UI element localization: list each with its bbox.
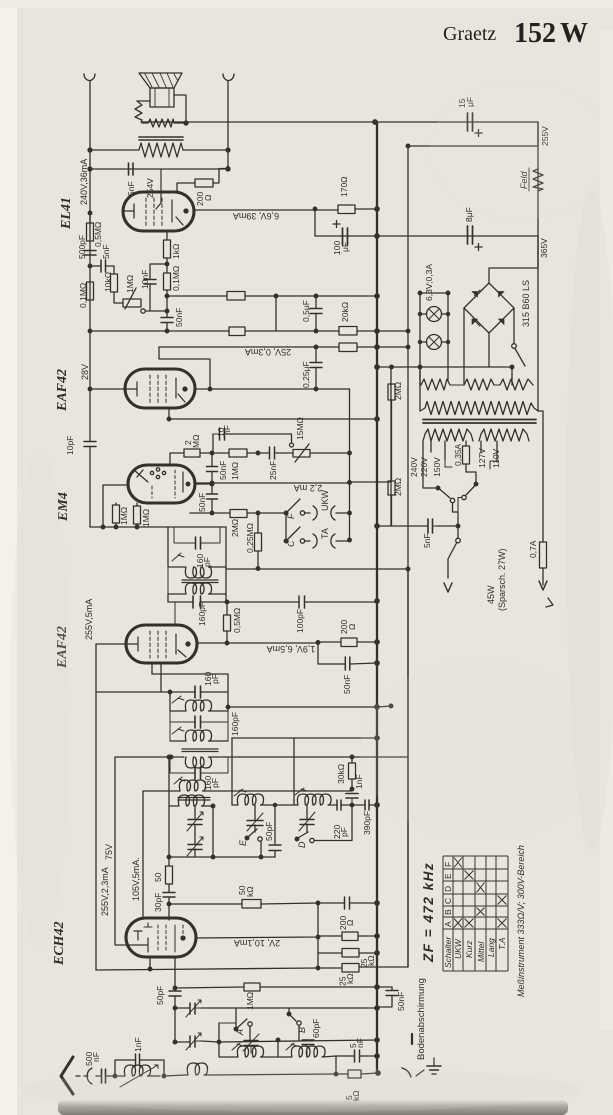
switch E	[245, 836, 249, 840]
capacitor 220pF	[337, 800, 341, 810]
pot 15M	[293, 450, 310, 458]
resistor 0,25M	[257, 513, 259, 568]
svg-text:1MΩ: 1MΩ	[125, 275, 135, 293]
rectifier feed corner 365V	[489, 236, 538, 283]
switch D	[295, 837, 299, 841]
svg-text:Schalter: Schalter	[443, 936, 453, 968]
ECH42 electrodes	[134, 931, 148, 952]
resistor 170 Ohm	[338, 205, 355, 214]
line y=757	[115, 756, 408, 758]
IFT2 bottom rail y=773	[170, 757, 228, 773]
svg-text:1,9V, 6,5mA: 1,9V, 6,5mA	[267, 644, 316, 654]
svg-text:MΩ: MΩ	[191, 435, 201, 448]
svg-text:5nF: 5nF	[422, 533, 432, 548]
switch table grid	[443, 856, 508, 971]
capacitor 8uF electrolytic	[468, 226, 473, 244]
svg-text:kΩ: kΩ	[245, 886, 255, 897]
svg-text:Ω: Ω	[345, 920, 355, 926]
bridge left corner down	[463, 308, 465, 384]
cathode rail x=115	[115, 757, 141, 945]
hum coil zigzag	[135, 101, 142, 122]
oscillator tank right rail x=213	[212, 806, 214, 857]
svg-text:D: D	[443, 886, 453, 892]
svg-text:B: B	[297, 1027, 307, 1033]
line y=419	[169, 418, 377, 420]
255V corner down	[537, 122, 539, 146]
capacitor 100uF electrolytic	[343, 228, 348, 245]
svg-text:2MΩ: 2MΩ	[393, 478, 403, 496]
svg-text:ZF = 472 kHz: ZF = 472 kHz	[421, 862, 436, 963]
shield mark	[411, 1034, 413, 1044]
antenna coil	[118, 1065, 160, 1076]
tube EAF42 (AF) envelope	[125, 369, 195, 408]
staircase to EAF42	[159, 347, 210, 389]
resistor 0,5M (left rail)	[87, 223, 94, 241]
resistor 200 Ohm (IF)	[341, 638, 357, 647]
capacitor 50nF (screen bypass)	[318, 642, 377, 664]
capacitor 15uF electrolytic	[468, 113, 473, 131]
svg-text:110V: 110V	[491, 448, 501, 468]
terminal arc left	[84, 74, 95, 81]
decoupling chain x=318	[317, 903, 319, 968]
resistor 30k	[351, 756, 353, 789]
resistor 1M (EM4 b)	[136, 503, 138, 527]
ECH42 bottom stubs	[149, 957, 151, 969]
resistor 200 Ohm (screen)	[195, 179, 213, 187]
svg-text:Bodenabschirmung: Bodenabschirmung	[416, 978, 427, 1060]
svg-text:(Sparsch. 27W): (Sparsch. 27W)	[497, 548, 507, 611]
svg-text:2,2 mA: 2,2 mA	[294, 483, 323, 493]
capacitor 5nF (mains)	[377, 525, 458, 527]
coupling node x=336	[335, 1056, 337, 1074]
grid-chain rail (vertical, x=391)	[390, 367, 392, 526]
anode stub to EL41	[156, 169, 161, 209]
svg-text:50: 50	[153, 872, 163, 882]
diode marks	[472, 292, 478, 298]
switch A stem	[235, 1008, 237, 1029]
svg-text:30kΩ: 30kΩ	[336, 764, 346, 784]
AF coupling vertical x=349.5	[349, 389, 351, 540]
mains plug arrow left	[444, 583, 452, 592]
bridge right corner to switch	[513, 308, 515, 343]
EM4 electrodes	[134, 470, 148, 482]
table X marks	[454, 858, 462, 868]
tube EM4 envelope	[128, 465, 195, 503]
detector line y=453	[170, 453, 350, 465]
D branch rail	[293, 738, 295, 800]
svg-text:105V,5mA.: 105V,5mA.	[131, 857, 141, 901]
terminal arc right	[223, 74, 234, 81]
mains plug arrow right	[539, 581, 547, 590]
svg-text:315 B60 LS: 315 B60 LS	[521, 280, 531, 327]
svg-text:50nF: 50nF	[174, 308, 184, 327]
IFT1 side rails	[168, 527, 226, 602]
resistor 5k	[348, 1070, 361, 1078]
svg-text:75V: 75V	[104, 844, 114, 860]
capacitor 10pF (left rail)	[84, 442, 96, 447]
IFT2 AVC line y=707	[228, 706, 391, 707]
line y=367	[377, 366, 512, 368]
svg-text:50nF: 50nF	[218, 461, 228, 480]
dial lamp rails	[420, 293, 448, 385]
svg-text:μF: μF	[340, 242, 350, 252]
IFT2 coil 3 on line y=757	[185, 757, 214, 768]
capacitor 50nF (x=392)	[378, 987, 392, 1007]
svg-text:0,5MΩ: 0,5MΩ	[93, 222, 103, 247]
coupling coil	[185, 1063, 211, 1075]
IF line y=602	[168, 594, 377, 602]
capacitor 5nF (left small)	[101, 260, 106, 272]
svg-text:2V, 10,1mA: 2V, 10,1mA	[234, 938, 280, 948]
rectifier bridge 315 B60 LS	[464, 283, 514, 333]
svg-text:E: E	[443, 873, 453, 879]
transformer core	[423, 420, 536, 424]
UKW jack	[313, 506, 335, 520]
resistor 2M (lower)	[388, 481, 395, 495]
tube EAF42 (IF) envelope	[126, 625, 197, 663]
svg-text:25V, 0,3mA: 25V, 0,3mA	[245, 347, 291, 357]
anode line y=389	[195, 388, 350, 390]
svg-text:kΩ: kΩ	[366, 955, 376, 966]
grid resistor 50	[166, 866, 173, 884]
svg-text:1MΩ: 1MΩ	[119, 507, 129, 525]
antenna chevron	[61, 1057, 73, 1094]
left supply rail (vertical, x=90)	[89, 81, 91, 527]
svg-text:F: F	[286, 513, 296, 519]
line y=169 (254V)	[90, 168, 228, 170]
svg-text:A: A	[443, 921, 453, 927]
capacitor 390pF	[365, 800, 369, 810]
trimmer cap A	[244, 1041, 258, 1046]
OT primary line y=150	[90, 149, 228, 151]
line y=569	[226, 568, 408, 570]
svg-text:30pF: 30pF	[153, 893, 163, 912]
line y=791	[143, 790, 352, 792]
dial lamp 1	[427, 307, 442, 322]
svg-text:255V,5mA: 255V,5mA	[84, 599, 94, 640]
capacitor 1nF (osc)	[346, 794, 358, 799]
speaker wire right	[174, 95, 186, 123]
capacitor 100pF	[299, 596, 305, 608]
trimmer cap D	[306, 805, 308, 832]
svg-text:pF: pF	[339, 827, 349, 837]
1nF loop	[115, 1060, 164, 1076]
IFT1 upper coil	[168, 567, 226, 578]
selector switch 1	[436, 486, 440, 490]
bandfilter top coil	[179, 780, 210, 791]
svg-text:500pF: 500pF	[77, 235, 87, 259]
resistor 0,8M (second)	[339, 343, 357, 352]
svg-text:6,6V, 39mA: 6,6V, 39mA	[233, 211, 279, 221]
resistor 20k	[339, 327, 357, 336]
svg-text:0,1MΩ: 0,1MΩ	[171, 266, 181, 291]
resistor 2M (EM4 grid)	[184, 449, 200, 457]
capacitor 160pF (IFT2 b)	[195, 716, 201, 728]
secondary winding right (127/110V)	[479, 429, 529, 441]
fuse 0,35A	[466, 441, 476, 484]
EL41 cathode resistor 1kOhm	[166, 231, 168, 273]
trimmer cap E	[254, 805, 256, 832]
svg-text:170Ω: 170Ω	[339, 176, 349, 197]
svg-text:1nF: 1nF	[133, 1037, 143, 1052]
switch B stem	[288, 1008, 290, 1014]
resistor 0,2M	[229, 327, 245, 336]
svg-text:pF: pF	[202, 557, 212, 567]
capacitor 50nF (second)	[211, 484, 213, 513]
capacitor 30pF	[163, 893, 175, 898]
capacitor 10nF	[144, 280, 156, 285]
top B+ line y=122	[142, 121, 538, 123]
svg-text:365V: 365V	[539, 238, 549, 258]
svg-text:1kΩ: 1kΩ	[171, 244, 181, 259]
capacitor 50nF (grid)	[161, 318, 173, 323]
svg-text:1nF: 1nF	[354, 774, 364, 789]
EM4 cathode bracket	[103, 485, 126, 527]
left return rail x=96	[95, 644, 97, 970]
svg-text:1MΩ: 1MΩ	[141, 509, 151, 527]
svg-text:TA: TA	[320, 528, 330, 539]
switch A	[237, 1019, 247, 1028]
selector switch 2	[474, 482, 478, 486]
capacitor 160pF (IFT1 top)	[174, 527, 220, 543]
switch C	[285, 513, 287, 541]
svg-text:F: F	[443, 862, 453, 867]
resistor 1M	[229, 449, 247, 457]
svg-text:50nF: 50nF	[396, 992, 406, 1011]
main line y=1075	[164, 1073, 378, 1076]
svg-text:EL41: EL41	[59, 197, 74, 230]
speaker cone	[139, 73, 182, 88]
svg-text:25nF: 25nF	[268, 461, 278, 480]
antenna lead dashes	[76, 1075, 88, 1077]
junction	[165, 262, 169, 266]
capacitor (HF bypass)	[345, 897, 350, 909]
capacitor 0,25uF	[315, 347, 317, 389]
heater winding zigzags y=384	[421, 379, 450, 390]
line y=969	[96, 569, 408, 970]
svg-text:0,35A: 0,35A	[453, 443, 463, 466]
svg-text:C: C	[286, 540, 296, 547]
resistor 10k	[111, 274, 118, 292]
capacitor 10nF (AVC)	[220, 428, 225, 440]
speaker magnet box	[150, 88, 174, 107]
resistor 0,8M	[227, 292, 245, 301]
line y=857	[169, 856, 275, 858]
anode line y=643	[197, 642, 377, 643]
feedback corner	[314, 209, 316, 236]
svg-text:Ω: Ω	[347, 624, 357, 630]
svg-text:20kΩ: 20kΩ	[340, 302, 350, 322]
svg-text:127V: 127V	[477, 448, 487, 468]
IFT1 lower coil	[168, 583, 226, 594]
svg-text:45W: 45W	[486, 585, 496, 604]
IFT1 top rail y=527	[90, 526, 226, 528]
svg-text:50nF: 50nF	[197, 493, 207, 512]
mains switch	[457, 525, 459, 538]
svg-text:UKW: UKW	[453, 938, 463, 959]
line y=347 (25V 0,3mA)	[159, 346, 408, 348]
capacitor 160pF (IF grid)	[193, 596, 201, 608]
svg-text:0,5MΩ: 0,5MΩ	[232, 608, 242, 633]
AVC bus (vertical, x=408)	[407, 146, 409, 967]
svg-text:C: C	[443, 898, 453, 904]
variable cap (padder)	[190, 1003, 195, 1014]
line y=146	[408, 145, 538, 147]
capacitor 1nF (antenna)	[136, 1054, 140, 1066]
svg-text:255V,2,3mA: 255V,2,3mA	[100, 867, 110, 916]
svg-text:390pF: 390pF	[362, 811, 372, 835]
svg-text:160pF: 160pF	[197, 602, 207, 626]
EAF42 cathode drop	[168, 408, 170, 419]
IFT1 core	[182, 580, 218, 583]
OT primary zigzag y=150	[139, 143, 183, 157]
speaker wire left	[137, 100, 150, 102]
resistor 0,1M (cathode)	[164, 273, 171, 290]
RF coil line y=805	[266, 804, 377, 806]
capacitor 5nF (254V)	[129, 163, 134, 175]
svg-text:EAF42: EAF42	[55, 369, 70, 412]
EAF42 electrodes	[90, 382, 137, 396]
svg-text:nF: nF	[355, 1038, 365, 1048]
IFT2 top rail y=692	[96, 691, 228, 693]
IFT2 coil 1	[170, 692, 228, 711]
svg-text:Graetz: Graetz	[443, 23, 496, 45]
capacitor 25nF	[270, 447, 275, 459]
svg-text:B: B	[443, 909, 453, 915]
svg-text:pF: pF	[210, 778, 220, 788]
line y=1040	[175, 1040, 377, 1042]
svg-text:D: D	[297, 841, 307, 848]
grid rail x=143	[142, 791, 144, 918]
svg-text:160pF: 160pF	[230, 712, 240, 736]
svg-text:2MΩ: 2MΩ	[230, 519, 240, 537]
IFT2 mid rail y=722	[170, 711, 228, 741]
grid coupling line 10nF branch	[150, 264, 167, 279]
svg-text:Mittel: Mittel	[476, 941, 486, 962]
svg-text:220V: 220V	[419, 457, 429, 477]
line A y=1023	[219, 1022, 236, 1024]
capacitor 50pF (osc grid)	[169, 991, 181, 996]
svg-text:10pF: 10pF	[65, 436, 75, 455]
svg-text:50pF: 50pF	[264, 822, 274, 841]
svg-text:T.A: T.A	[497, 937, 507, 950]
E branch rail	[231, 738, 233, 801]
EL41 electrodes	[123, 204, 134, 218]
wire pot to 10k	[114, 292, 123, 303]
svg-text:nF: nF	[91, 1052, 101, 1062]
svg-text:Kurz: Kurz	[464, 940, 474, 958]
svg-text:240V: 240V	[409, 457, 419, 477]
capacitor 50pF (E)	[274, 805, 276, 857]
bridge bottom to heater line	[488, 333, 490, 367]
svg-text:5nF: 5nF	[126, 181, 136, 196]
mixer anode line y=938	[196, 936, 377, 938]
connector drop	[275, 296, 277, 331]
mains primary winding zigzag y=408	[420, 402, 538, 415]
secondary winding left (240/220/150V)	[423, 429, 473, 441]
OT core	[139, 137, 183, 140]
svg-text:kΩ: kΩ	[345, 973, 355, 984]
grid stub	[174, 602, 176, 625]
line y=296 grid feed	[167, 295, 377, 297]
capacitor 160pF (IFT2 c)	[195, 767, 201, 779]
resistor 200 Ohm (osc anode)	[342, 932, 358, 941]
resistor 0,5M (IF)	[226, 602, 228, 643]
resistor 2M (shunt)	[230, 510, 247, 518]
svg-text:2MΩ: 2MΩ	[393, 382, 403, 400]
capacitor 0,5uF	[315, 296, 317, 331]
svg-text:60pF: 60pF	[311, 1019, 321, 1038]
resistor 1M (osc grid)	[244, 983, 260, 991]
svg-text:Lang: Lang	[486, 938, 496, 957]
svg-text:nF: nF	[222, 425, 232, 435]
variable cap (ant trim)	[190, 1036, 195, 1047]
svg-text:E: E	[238, 839, 248, 846]
coil D (oscillator)	[294, 794, 331, 805]
coil B	[285, 1046, 336, 1057]
ground symbol	[416, 1058, 434, 1076]
resistor 2M (upper)	[388, 384, 395, 400]
TA jack	[313, 534, 335, 548]
right HT rail (vertical, x=538)	[537, 122, 539, 411]
svg-text:10kΩ: 10kΩ	[103, 272, 113, 292]
svg-text:1MΩ: 1MΩ	[230, 462, 240, 480]
svg-text:Ω: Ω	[203, 195, 213, 201]
anode line y=210	[194, 209, 338, 211]
coil E	[232, 794, 266, 805]
EAF42 IF cathode stubs	[152, 663, 228, 692]
shield curve	[402, 1068, 411, 1077]
svg-text:0,7A: 0,7A	[528, 540, 538, 558]
svg-text:pF: pF	[210, 674, 220, 684]
junction dots top	[184, 121, 188, 125]
IFT2 core	[182, 749, 218, 752]
title Graetz 152W	[443, 18, 588, 49]
svg-text:0,1MΩ: 0,1MΩ	[78, 283, 88, 308]
switch F	[284, 511, 288, 515]
tube EL41 envelope	[123, 192, 194, 231]
svg-text:50pF: 50pF	[155, 986, 165, 1005]
svg-text:1MΩ: 1MΩ	[245, 992, 255, 1010]
oscillator tank left rail x=169	[168, 757, 170, 920]
svg-text:152W: 152W	[514, 18, 588, 49]
OT secondary zigzag y=123	[142, 119, 186, 127]
line y=513	[190, 512, 286, 514]
coil A	[231, 1046, 278, 1057]
capacitor 60pF	[302, 1040, 314, 1045]
resistor 25k (b)	[342, 964, 359, 973]
Feld field coil zigzag	[533, 169, 543, 191]
fuse 0,7A	[538, 411, 543, 585]
main HT bus (vertical, x=377)	[376, 122, 378, 1073]
svg-text:0,25MΩ: 0,25MΩ	[245, 523, 255, 553]
resistor 0,1M (left rail)	[87, 282, 94, 300]
svg-text:0,25μF: 0,25μF	[301, 361, 311, 388]
svg-text:240V,36mA: 240V,36mA	[79, 159, 89, 205]
trimmer cap (osc b)	[194, 849, 196, 857]
dial lamp 2	[427, 335, 442, 350]
svg-text:50nF: 50nF	[342, 675, 352, 694]
volume pot 1M	[123, 299, 141, 307]
RF bank top line y=738	[232, 737, 377, 739]
bandfilter core	[178, 798, 210, 801]
capacitor 5nF (IF trap)	[336, 1055, 377, 1057]
svg-text:5nF: 5nF	[101, 244, 111, 259]
trimmer cap (osc a)	[194, 806, 196, 844]
EAF42 IF electrodes	[96, 637, 138, 651]
resistor 25k (a)	[318, 952, 377, 954]
line y=482	[195, 482, 391, 483]
